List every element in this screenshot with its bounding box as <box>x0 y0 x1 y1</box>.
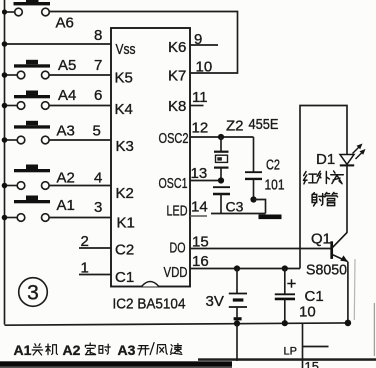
pushbutton A6 <box>5 0 51 16</box>
svg-text:10: 10 <box>196 59 213 76</box>
node A5-bus junction <box>2 72 8 78</box>
svg-text:A4: A4 <box>58 87 76 104</box>
wire A2 to pin4 K2 <box>49 185 111 187</box>
wire A1 to pin3 K1 <box>49 217 111 219</box>
svg-text:16: 16 <box>192 253 209 270</box>
svg-text:5: 5 <box>93 123 101 140</box>
pushbutton A5 <box>5 60 51 79</box>
wire left bus <box>4 0 6 325</box>
bottom page band <box>0 361 232 366</box>
node battery-bus junction <box>234 320 240 326</box>
svg-text:C1: C1 <box>115 269 134 286</box>
svg-text:2: 2 <box>81 233 89 250</box>
svg-text:4: 4 <box>94 170 102 187</box>
svg-text:A2: A2 <box>57 170 75 187</box>
svg-text:8: 8 <box>94 27 102 44</box>
capacitor C2 (resonator load) <box>245 137 262 200</box>
node C1-bus junction <box>282 320 288 326</box>
pin 2 stub <box>79 247 111 249</box>
wire pin12 OSC2 <box>190 136 254 138</box>
node A2-bus junction <box>2 183 8 189</box>
svg-text:C3: C3 <box>226 199 244 215</box>
svg-text:VDD: VDD <box>164 264 188 281</box>
svg-text:3: 3 <box>27 282 39 305</box>
pushbutton A1 <box>5 196 51 222</box>
svg-text:K6: K6 <box>168 39 186 56</box>
wire A5 to pin7 K5 <box>49 74 111 76</box>
svg-text:LED: LED <box>167 203 188 220</box>
wire A6 to pin10 K7 <box>49 12 237 74</box>
node A1-bus junction <box>2 215 8 221</box>
svg-text:C1: C1 <box>305 288 324 305</box>
pushbutton A4 <box>5 91 51 110</box>
node A4-bus junction <box>2 103 8 109</box>
svg-text:9: 9 <box>194 31 202 48</box>
svg-text:A3: A3 <box>57 123 75 140</box>
svg-text:DO: DO <box>170 240 186 257</box>
node A6-bus junction <box>2 9 7 14</box>
svg-text:1: 1 <box>81 260 89 277</box>
svg-text:101: 101 <box>265 177 285 194</box>
capacitor C1 electrolytic <box>275 269 296 325</box>
svg-text:A5: A5 <box>58 57 76 74</box>
svg-text:IC2 BA5104: IC2 BA5104 <box>113 297 186 313</box>
svg-text:455E: 455E <box>249 116 279 133</box>
svg-text:7: 7 <box>94 57 102 74</box>
LED D1 <box>340 144 366 166</box>
op-amp / IC body U1 BA5104 <box>111 28 190 287</box>
wire Q1 emitter to bus <box>347 262 349 325</box>
svg-text:13: 13 <box>191 165 208 182</box>
node emitter-bus junction <box>345 320 352 327</box>
svg-text:Z2: Z2 <box>226 118 244 135</box>
svg-text:A1: A1 <box>14 342 32 358</box>
node C2 ground junction <box>250 196 256 202</box>
svg-text:6: 6 <box>94 87 102 104</box>
svg-text:12: 12 <box>192 120 209 137</box>
svg-text:K7: K7 <box>168 68 186 85</box>
node A3-bus junction <box>2 137 8 143</box>
node VDD C1 junction <box>282 265 288 271</box>
svg-text:K1: K1 <box>117 215 135 232</box>
svg-text:K5: K5 <box>115 70 133 87</box>
wire fragment below bus at battery <box>236 325 238 362</box>
svg-text:3: 3 <box>94 199 102 216</box>
wire pin15 DO to Q1 base <box>190 248 332 250</box>
svg-text:10: 10 <box>299 304 316 321</box>
wire VDD to D1 anode <box>300 106 347 269</box>
svg-text:OSC1: OSC1 <box>159 175 188 192</box>
figure number 3 <box>19 278 48 307</box>
svg-text:3V: 3V <box>206 293 224 310</box>
ground <box>259 215 282 220</box>
svg-text:S8050: S8050 <box>306 262 347 279</box>
capacitor C3 <box>213 187 230 213</box>
svg-text:K8: K8 <box>168 98 186 115</box>
node OSC2 junction <box>218 134 224 140</box>
pin 9 stub <box>190 44 218 46</box>
wire C2 to ground <box>254 200 266 214</box>
pin 1 stub <box>79 274 111 276</box>
wire pin13 OSC1 <box>190 180 221 182</box>
pushbutton A3 <box>5 121 51 144</box>
battery 3V <box>229 269 247 325</box>
wire pin 8 Vss to bus <box>5 43 112 45</box>
resonator Z2 <box>214 137 229 181</box>
wire D1 cathode to Q1 collector <box>346 165 348 232</box>
svg-text:Q1: Q1 <box>311 231 331 248</box>
svg-text:LP: LP <box>284 346 297 358</box>
svg-text:14: 14 <box>191 199 208 216</box>
wire A3 to pin5 K3 <box>49 139 111 141</box>
svg-text:11: 11 <box>192 89 208 106</box>
pushbutton A2 <box>5 165 51 190</box>
svg-text:D1: D1 <box>316 151 335 168</box>
node pin8-bus junction <box>2 41 8 47</box>
svg-text:A6: A6 <box>56 15 74 32</box>
wire faint page artifact right <box>353 259 356 320</box>
node OSC1 junction <box>218 177 224 183</box>
wire bottom bus <box>5 323 348 325</box>
pin 14 stub <box>190 215 207 217</box>
wire A4 to pin6 K4 <box>49 105 111 107</box>
svg-text:C2: C2 <box>266 157 280 174</box>
svg-text:A3: A3 <box>118 342 136 358</box>
svg-text:15: 15 <box>192 234 209 251</box>
label 射管 <box>312 193 325 206</box>
svg-text:K3: K3 <box>116 138 134 155</box>
node VDD battery junction <box>234 265 240 271</box>
svg-text:K4: K4 <box>115 101 133 118</box>
transistor Q1 <box>332 232 348 261</box>
pin 11 stub <box>190 105 204 107</box>
label 红外发 <box>303 171 316 183</box>
svg-text:A2: A2 <box>63 342 81 358</box>
svg-text:Vss: Vss <box>116 41 136 58</box>
svg-text:K2: K2 <box>116 185 134 202</box>
wire C3 to ground <box>211 213 266 215</box>
svg-text:C2: C2 <box>115 242 134 259</box>
svg-text:A1: A1 <box>57 197 75 214</box>
wire fragment next figure <box>303 324 329 368</box>
svg-text:OSC2: OSC2 <box>159 130 189 147</box>
wire pin16 VDD <box>190 268 300 270</box>
